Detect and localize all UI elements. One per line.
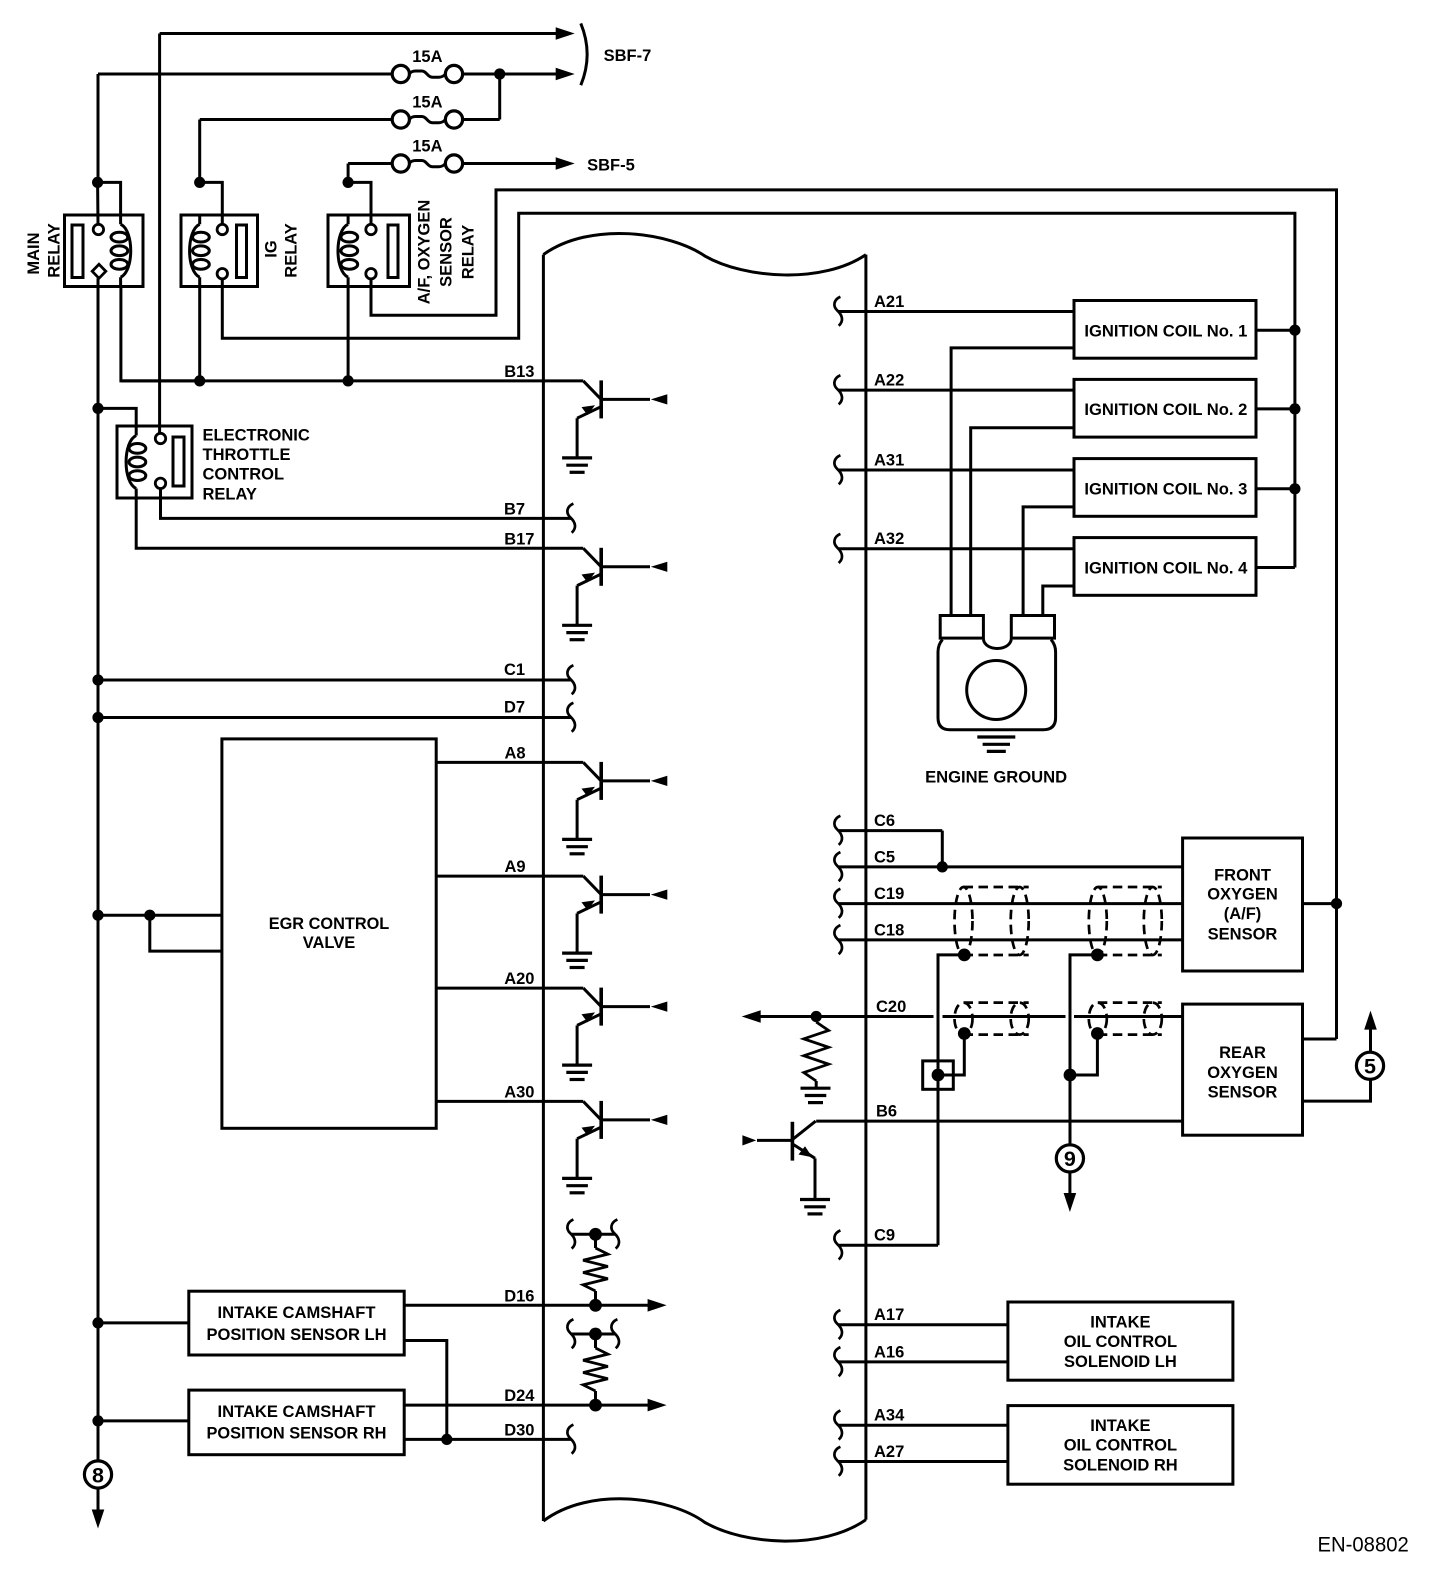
wire rear O2 supply to bus <box>1303 1038 1337 1041</box>
wire A27 <box>838 1460 1008 1463</box>
arrow C20 continuation <box>742 1010 761 1023</box>
svg-text:SOLENOID LH: SOLENOID LH <box>1064 1353 1177 1371</box>
wire rail to RH cam sensor <box>98 1419 189 1422</box>
svg-text:B17: B17 <box>504 530 534 548</box>
svg-text:ELECTRONIC: ELECTRONIC <box>203 426 310 444</box>
break C5 inside ECM <box>834 852 842 881</box>
break A34 inside ECM <box>834 1411 842 1440</box>
arrow node 5 continuation <box>1364 1011 1377 1030</box>
svg-text:EN-08802: EN-08802 <box>1318 1533 1409 1557</box>
wire ignition coil 2 to engine ground <box>971 428 1074 616</box>
shield around C19/C18 pair (right) <box>1089 887 1162 955</box>
IG relay pin bottom <box>217 269 227 279</box>
wire left rail (main relay output bus) <box>97 278 100 1463</box>
svg-text:A8: A8 <box>505 744 526 762</box>
ground below R3 <box>801 1088 831 1102</box>
junction shield drains left <box>932 1069 945 1082</box>
shield around C20 (right) <box>1089 1003 1162 1035</box>
svg-text:SBF-7: SBF-7 <box>604 47 652 65</box>
ECM torn bottom edge <box>543 1499 866 1541</box>
wire C6 down to C5 <box>941 831 944 867</box>
engine ground terminal tab 2 <box>1011 616 1054 639</box>
svg-text:C1: C1 <box>504 661 525 679</box>
break A17 inside ECM <box>834 1310 842 1339</box>
resistor R3 (C20 bias) <box>804 1022 829 1081</box>
svg-text:D24: D24 <box>504 1387 535 1405</box>
transistor Q7 (B6 driver, mirrored) <box>757 1121 816 1198</box>
engine ground lug body <box>938 640 1056 730</box>
svg-text:C18: C18 <box>874 921 904 939</box>
wire A31 <box>838 469 1074 472</box>
break C19 inside ECM <box>834 889 842 918</box>
intake oil control solenoid LH box <box>1008 1302 1233 1380</box>
svg-text:OXYGEN: OXYGEN <box>1207 886 1278 904</box>
wire to main relay top pin <box>96 182 99 224</box>
arrow D24 continuation <box>648 1399 667 1412</box>
break C9 inside ECM <box>834 1230 842 1259</box>
svg-text:RELAY: RELAY <box>460 225 478 279</box>
svg-text:REAR: REAR <box>1219 1044 1266 1062</box>
engine ground symbol <box>977 737 1015 751</box>
junction on left rail for ETC relay <box>92 403 103 414</box>
junction C6/C5 <box>937 861 948 872</box>
junction D16 resistor top <box>589 1228 602 1241</box>
junction on B13 line <box>343 375 354 386</box>
wire internal supply bar for D16 resistor <box>571 1233 615 1236</box>
svg-text:EGR CONTROL: EGR CONTROL <box>269 915 390 933</box>
shield around C19/C18 pair (left) <box>955 887 1029 955</box>
junction D24 resistor top <box>589 1328 602 1341</box>
svg-text:8: 8 <box>92 1463 104 1487</box>
break C18 inside ECM <box>834 925 842 954</box>
break A27 inside ECM <box>834 1447 842 1476</box>
ignition coil No. 4 box <box>1074 538 1256 596</box>
svg-text:C19: C19 <box>874 885 904 903</box>
transistor Q1 (B13 driver) <box>577 380 650 458</box>
junction node above A/F relay <box>343 177 354 188</box>
wire B17 from ETC relay coil <box>136 498 583 548</box>
wire A17 <box>838 1323 1008 1326</box>
wire A9 <box>436 875 583 878</box>
svg-text:A17: A17 <box>874 1306 904 1324</box>
wire internal supply bar for D24 resistor <box>571 1333 615 1336</box>
engine ground terminal tab 1 <box>940 616 983 639</box>
node 5 (off-page connector) <box>1356 1052 1383 1079</box>
intake camshaft position sensor RH box <box>189 1390 404 1455</box>
transistor Q3 (A8 driver) <box>577 762 650 840</box>
svg-text:A16: A16 <box>874 1343 904 1361</box>
break A22 inside ECM <box>834 375 842 404</box>
transistor Q5 (A20 driver) <box>577 988 650 1066</box>
svg-text:ENGINE GROUND: ENGINE GROUND <box>925 768 1067 786</box>
wire fuse 1 output to SBF-7 arrow <box>463 73 556 76</box>
svg-text:C9: C9 <box>874 1227 895 1245</box>
wire resistor R2 top stub <box>594 1334 597 1348</box>
main relay pin bottom (diamond) <box>92 264 106 278</box>
svg-text:15A: 15A <box>412 93 442 111</box>
wire above node 5 <box>1369 1028 1372 1052</box>
svg-text:15A: 15A <box>412 137 442 155</box>
fuse F1 15A <box>392 65 409 82</box>
wire A20 <box>436 987 583 990</box>
ignition coil No. 3 box <box>1074 459 1256 517</box>
svg-text:OIL CONTROL: OIL CONTROL <box>1064 1437 1177 1455</box>
ECM torn top edge <box>543 233 866 275</box>
wire A16 <box>838 1360 1008 1363</box>
wire front oxygen sensor supply <box>1303 902 1337 905</box>
break C6 inside ECM <box>834 816 842 845</box>
svg-text:C20: C20 <box>876 998 906 1016</box>
engine ground bolt hole <box>967 661 1026 720</box>
junction R2 to D24 line <box>589 1399 602 1412</box>
wire to SBF-7 upper arrow <box>160 32 556 35</box>
electronic throttle control relay box <box>117 426 192 498</box>
junction coil 1 on supply bus <box>1289 325 1300 336</box>
wire resistor R3 top stub <box>815 1017 818 1023</box>
node 8 (off-page connector) <box>84 1461 111 1488</box>
intake oil control solenoid RH box <box>1008 1406 1233 1485</box>
wire D30 <box>404 1438 571 1441</box>
break A21 inside ECM <box>834 297 842 326</box>
svg-text:15A: 15A <box>412 48 442 66</box>
svg-text:RELAY: RELAY <box>203 485 257 503</box>
svg-text:D30: D30 <box>504 1421 534 1439</box>
svg-text:INTAKE: INTAKE <box>1090 1417 1150 1435</box>
wire to EGR valve pin 2 <box>150 915 222 951</box>
intake camshaft position sensor LH box <box>189 1291 404 1355</box>
wire C20 middle segment <box>943 1015 1066 1018</box>
wire A/F relay branch up to fuse 3 <box>347 164 350 183</box>
main relay contact <box>72 225 83 278</box>
wire LH cam sensor low side to D30 <box>404 1341 447 1440</box>
svg-text:B7: B7 <box>504 500 525 518</box>
wire to IG relay top pin <box>200 182 223 224</box>
wire ignition coil 3 supply <box>1256 487 1295 490</box>
svg-text:THROTTLE: THROTTLE <box>203 446 291 464</box>
A/F relay pin bottom <box>366 269 376 279</box>
break B7 inside ECM <box>567 504 575 533</box>
svg-text:A22: A22 <box>874 372 904 390</box>
wire A/F relay coil to B13 line <box>347 287 350 381</box>
wire ignition coil 2 supply <box>1256 407 1295 410</box>
junction EGR branch <box>144 910 155 921</box>
wire main relay coil to B13 line <box>121 287 200 381</box>
wire resistor R3 bottom stub <box>815 1081 818 1088</box>
wire C19 <box>838 902 1183 905</box>
svg-text:OXYGEN: OXYGEN <box>1207 1064 1278 1082</box>
wire C20 right shield drain <box>1070 1034 1097 1076</box>
wire resistor R2 bottom stub <box>594 1391 597 1405</box>
wire B13 <box>121 379 583 382</box>
wire to fuse 1 <box>98 73 392 76</box>
junction D30 <box>441 1434 452 1445</box>
svg-text:SENSOR: SENSOR <box>1208 926 1278 944</box>
svg-text:D7: D7 <box>504 699 525 717</box>
wire C9 <box>838 1244 938 1247</box>
transistor Q6 (A30 driver) <box>577 1101 650 1179</box>
resistor R1 (D16 pull-up) <box>583 1248 608 1291</box>
wire A8 <box>436 761 583 764</box>
A/F relay pin top <box>366 224 376 234</box>
wire C20 left segment <box>757 1015 934 1018</box>
wire ignition coil 4 to engine ground <box>1043 586 1074 616</box>
wire IG relay coil to B13 line <box>198 287 201 381</box>
junction front O2 supply <box>1331 898 1342 909</box>
break A32 inside ECM <box>834 534 842 563</box>
ETC relay contact <box>173 437 184 486</box>
arrow D16 continuation <box>648 1299 667 1312</box>
svg-text:INTAKE CAMSHAFT: INTAKE CAMSHAFT <box>218 1403 376 1421</box>
ignition coil No. 2 box <box>1074 379 1256 437</box>
svg-text:RELAY: RELAY <box>282 223 300 277</box>
wire to A/F relay top pin <box>348 182 371 224</box>
wire C20 left shield drain <box>938 1034 964 1076</box>
junction C1 on left rail <box>92 674 103 685</box>
svg-text:POSITION SENSOR LH: POSITION SENSOR LH <box>207 1326 387 1344</box>
wire to fuse 3 <box>348 162 391 165</box>
svg-text:A9: A9 <box>505 858 526 876</box>
svg-text:C5: C5 <box>874 848 895 866</box>
resistor R2 (D24 pull-up) <box>583 1348 608 1391</box>
svg-text:A30: A30 <box>504 1083 534 1101</box>
junction RH cam sensor on left rail <box>92 1415 103 1426</box>
svg-text:IGNITION COIL No. 1: IGNITION COIL No. 1 <box>1084 322 1247 340</box>
wire C1 <box>98 679 571 682</box>
wire below node 8 <box>97 1488 100 1513</box>
EGR control valve box <box>222 739 436 1128</box>
wire A32 <box>838 547 1074 550</box>
junction C20 shield drain left <box>958 1027 971 1040</box>
IG relay contact <box>237 225 247 278</box>
wire resistor R1 bottom stub <box>594 1291 597 1305</box>
svg-text:POSITION SENSOR RH: POSITION SENSOR RH <box>207 1425 387 1443</box>
SBF-7 connector bracket <box>581 23 587 85</box>
break C1 inside ECM <box>567 665 575 694</box>
wire C20 right segment <box>1074 1015 1183 1018</box>
break left of D24 resistor bar <box>567 1319 575 1348</box>
wire ignition coil 3 to engine ground <box>1023 507 1074 616</box>
svg-text:IGNITION COIL No. 2: IGNITION COIL No. 2 <box>1084 401 1247 419</box>
main relay box <box>65 215 144 287</box>
svg-text:IGNITION COIL No. 3: IGNITION COIL No. 3 <box>1084 480 1247 498</box>
svg-text:A20: A20 <box>504 970 534 988</box>
ETC relay pin top <box>155 433 165 443</box>
wire rear O2 signal to node 5 <box>1303 1080 1371 1102</box>
A/F oxygen sensor relay box <box>328 215 410 287</box>
wire shield drain left pair down to C9 <box>938 955 964 1245</box>
ground below Q7 <box>800 1200 830 1214</box>
wire D24 <box>404 1404 648 1407</box>
wire A/F relay contact to oxygen sensor supply <box>371 190 1337 1039</box>
ETC relay pin bottom <box>155 478 165 488</box>
wire A21 <box>838 310 1074 313</box>
transistor Q4 (A9 driver) <box>577 876 650 954</box>
front oxygen sensor box <box>1183 838 1303 971</box>
svg-text:D16: D16 <box>504 1287 534 1305</box>
wire SBF-7 feed rail from ETC relay top pin <box>158 34 161 434</box>
svg-text:(A/F): (A/F) <box>1224 905 1262 923</box>
wire to main relay coil <box>98 182 121 215</box>
rear oxygen sensor box <box>1183 1004 1303 1135</box>
break A16 inside ECM <box>834 1347 842 1376</box>
transistor Q2 (B17 driver) <box>577 548 650 626</box>
svg-text:A/F, OXYGEN: A/F, OXYGEN <box>416 200 434 305</box>
wire rail to ETC relay coil <box>98 408 136 426</box>
svg-text:SENSOR: SENSOR <box>1208 1084 1278 1102</box>
junction C20 to bias resistor <box>811 1011 822 1022</box>
wire A34 <box>838 1424 1008 1427</box>
wire A22 <box>838 389 1074 392</box>
arrow SBF-7 upper <box>556 27 575 40</box>
wire to fuse 2 <box>200 118 392 121</box>
break left of D16 resistor bar <box>567 1220 575 1249</box>
junction shield drain right <box>1091 949 1104 962</box>
ECM connector block left edge <box>542 255 545 1521</box>
svg-text:5: 5 <box>1364 1055 1376 1079</box>
break right of D16 resistor bar <box>611 1220 619 1249</box>
svg-text:SBF-5: SBF-5 <box>587 156 635 174</box>
ETC relay coil <box>126 426 146 498</box>
arrow SBF-5 <box>556 157 575 170</box>
junction node above main relay <box>92 177 103 188</box>
junction shield drain left <box>958 949 971 962</box>
wire junction down to fuse 2 output <box>498 74 501 120</box>
shield junction box <box>923 1061 954 1089</box>
wire B7 from ETC relay contact <box>161 488 572 518</box>
wire IG relay branch up to fuse 2 <box>198 120 201 183</box>
svg-text:SENSOR: SENSOR <box>438 217 456 287</box>
svg-text:IG: IG <box>262 240 280 257</box>
junction EGR on left rail <box>92 910 103 921</box>
junction D7 on left rail <box>92 712 103 723</box>
A/F relay coil <box>338 215 358 287</box>
break A31 inside ECM <box>834 455 842 484</box>
main relay coil <box>111 215 131 287</box>
fuse F2 15A <box>392 111 409 128</box>
break D30 inside ECM <box>567 1425 575 1454</box>
junction on B13 line <box>194 375 205 386</box>
wire rail to LH cam sensor <box>98 1321 189 1324</box>
wire C18 <box>838 938 1183 941</box>
wire C5 <box>838 865 1183 868</box>
svg-text:VALVE: VALVE <box>303 934 356 952</box>
break D7 inside ECM <box>567 703 575 732</box>
ECM connector block right edge <box>864 255 867 1520</box>
fuse F3 15A <box>392 155 409 172</box>
wire IG relay contact to ignition coil bus <box>222 213 1295 567</box>
junction shield drains right <box>1064 1069 1077 1082</box>
wire C6 <box>838 829 942 832</box>
junction coil 3 on supply bus <box>1289 483 1300 494</box>
node 9 (off-page connector) <box>1056 1145 1083 1172</box>
arrow node 9 continuation <box>1064 1193 1077 1212</box>
junction LH cam sensor on left rail <box>92 1317 103 1328</box>
main relay pin top <box>93 224 103 234</box>
arrow SBF-7 lower <box>556 68 575 81</box>
svg-text:CONTROL: CONTROL <box>203 466 285 484</box>
svg-text:B13: B13 <box>504 363 534 381</box>
svg-text:9: 9 <box>1064 1147 1076 1171</box>
wire rail to EGR valve pin 1 <box>98 914 222 917</box>
svg-text:A27: A27 <box>874 1443 904 1461</box>
svg-text:IGNITION COIL No. 4: IGNITION COIL No. 4 <box>1084 559 1248 577</box>
svg-text:OIL CONTROL: OIL CONTROL <box>1064 1333 1177 1351</box>
junction R1 to D16 line <box>589 1299 602 1312</box>
junction C20 shield drain right <box>1091 1027 1104 1040</box>
svg-text:B6: B6 <box>876 1103 897 1121</box>
shield around C20 (left) <box>955 1003 1029 1035</box>
IG relay coil <box>190 215 210 287</box>
svg-text:SOLENOID RH: SOLENOID RH <box>1063 1456 1178 1474</box>
wire resistor R1 top stub <box>594 1234 597 1248</box>
wire B6 <box>816 1120 1182 1123</box>
svg-text:FRONT: FRONT <box>1214 867 1271 885</box>
svg-text:A34: A34 <box>874 1407 905 1425</box>
wire ignition coil 4 supply <box>1256 566 1295 569</box>
wire below node 9 <box>1068 1172 1071 1196</box>
wire A30 <box>436 1100 583 1103</box>
svg-text:INTAKE: INTAKE <box>1090 1313 1150 1331</box>
A/F relay contact <box>388 225 398 278</box>
wire D7 <box>98 716 571 719</box>
ignition coil No. 1 box <box>1074 301 1256 359</box>
wire D16 <box>404 1304 648 1307</box>
svg-text:A31: A31 <box>874 451 904 469</box>
IG relay pin top <box>217 224 227 234</box>
svg-text:MAIN: MAIN <box>25 233 43 275</box>
IG relay box <box>181 215 258 287</box>
svg-text:A21: A21 <box>874 293 904 311</box>
arrow node 8 continuation <box>92 1510 105 1529</box>
junction fuse outputs <box>494 68 505 79</box>
wire fuse 3 output to SBF-5 <box>463 162 556 165</box>
svg-text:A32: A32 <box>874 530 904 548</box>
svg-text:INTAKE CAMSHAFT: INTAKE CAMSHAFT <box>218 1304 376 1322</box>
wire shield drain right pair down to node 9 <box>1070 955 1097 1147</box>
svg-text:RELAY: RELAY <box>46 223 64 277</box>
break right of D24 resistor bar <box>611 1319 619 1348</box>
junction node above IG relay <box>194 177 205 188</box>
wire main relay branch up to fuse 1 <box>97 74 100 182</box>
junction coil 2 on supply bus <box>1289 403 1300 414</box>
svg-text:C6: C6 <box>874 812 895 830</box>
wire ignition coil 1 to engine ground <box>951 348 1074 616</box>
wire ignition coil 1 supply <box>1256 329 1295 332</box>
wire fuse 2 output <box>463 118 500 121</box>
